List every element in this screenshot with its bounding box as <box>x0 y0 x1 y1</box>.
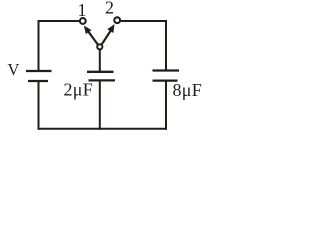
svg-text:V: V <box>8 60 20 79</box>
capacitor C2 8uF plates <box>153 71 180 81</box>
wire: battery bottom plate down to bottom rail <box>38 81 40 130</box>
wire: 8uF bottom plate down to bottom rail <box>165 81 167 130</box>
wire: bottom rail <box>38 128 168 130</box>
switch contact 1 (open circle) <box>80 18 86 24</box>
wire: top-left from battery top up and right to contact 1 <box>39 21 80 71</box>
capacitor C1 2uF plates <box>87 72 115 81</box>
switch arm arrow to contact 2 <box>102 25 114 44</box>
switch contact 2 (open circle) <box>114 17 120 23</box>
svg-text:2μF: 2μF <box>64 80 94 100</box>
switch arm arrow to contact 1 <box>85 27 98 45</box>
svg-text:8μF: 8μF <box>173 80 203 100</box>
wire: 2uF bottom plate down to bottom rail <box>99 80 101 129</box>
switch pivot (open circle) <box>97 44 102 49</box>
svg-text:1: 1 <box>78 0 87 20</box>
svg-text:2: 2 <box>105 0 114 18</box>
wire: switch pivot down to 2uF top plate <box>99 50 101 72</box>
wire: contact 2 right to top-right corner, down to 8uF top plate <box>121 21 166 71</box>
battery V (cell) <box>26 71 52 81</box>
